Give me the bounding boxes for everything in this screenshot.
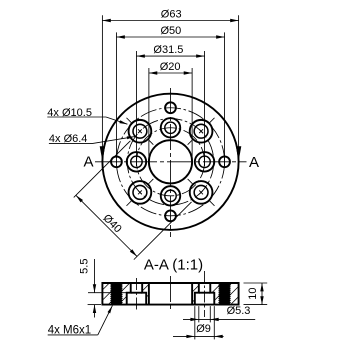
- hole Ø10.5/Ø6.4 top-left (on Ø40): [126, 118, 153, 145]
- svg-text:Ø20: Ø20: [160, 61, 181, 73]
- svg-text:10: 10: [247, 287, 259, 299]
- section centerline left counterbore: [135, 278, 137, 312]
- svg-text:A-A (1:1): A-A (1:1): [144, 256, 203, 273]
- counterbore hole Ø9/Ø5.3 left (on Ø31.5): [127, 152, 146, 171]
- vertical centerline: [170, 88, 172, 237]
- svg-text:5.5: 5.5: [79, 259, 91, 274]
- label A right: [249, 154, 259, 171]
- extension line Ø31.5 right: [204, 51, 206, 166]
- extension line Ø63 left: [101, 15, 103, 149]
- counterbore hole Ø9/Ø5.3 right (on Ø31.5): [195, 152, 214, 171]
- dimension Ø50: [116, 25, 224, 39]
- section main centerline: [170, 276, 172, 312]
- extension line Ø20 left: [148, 68, 150, 166]
- counterbore far-wall edge right: [199, 292, 210, 294]
- bolt circle Ø50: [116, 108, 224, 216]
- section arrow left: [100, 146, 105, 161]
- hole Ø10.5/Ø6.4 bottom-right (on Ø40): [188, 179, 215, 206]
- label A left: [83, 154, 93, 171]
- hole Ø10.5/Ø6.4 bottom-left (on Ø40): [126, 179, 153, 206]
- svg-text:Ø31.5: Ø31.5: [153, 44, 183, 56]
- extension line Ø50 left: [115, 32, 117, 166]
- threaded hole M6 right (on Ø50): [219, 156, 230, 167]
- label 4x Ø6.4 with leader: [49, 133, 135, 145]
- extension line Ø63 right: [238, 15, 240, 149]
- svg-text:A: A: [249, 154, 259, 171]
- dimension 5.5: [79, 259, 128, 318]
- dimension Ø63: [102, 9, 238, 23]
- extension line Ø31.5 left: [135, 51, 137, 166]
- bolt circle Ø31.5: [136, 128, 204, 196]
- svg-text:Ø50: Ø50: [161, 25, 182, 37]
- threaded hole M6x1 left (section): [110, 283, 123, 305]
- horizontal centerline / cutting line A-A: [95, 161, 247, 163]
- threaded hole M6 top (on Ø50): [165, 102, 176, 113]
- svg-text:Ø9: Ø9: [196, 323, 211, 335]
- dimension Ø5.3: [183, 305, 255, 323]
- svg-text:Ø5.3: Ø5.3: [227, 305, 251, 317]
- extension line Ø50 right: [224, 32, 226, 166]
- svg-text:Ø63: Ø63: [161, 9, 182, 21]
- dimension Ø20: [149, 61, 192, 75]
- extension line Ø20 right: [191, 68, 193, 166]
- label 4x Ø10.5 with leader: [47, 107, 127, 124]
- section material with hatching: [88, 283, 273, 305]
- hole Ø10.5/Ø6.4 top-right (on Ø40): [188, 118, 215, 145]
- threaded hole M6x1 right (section): [218, 283, 231, 305]
- counterbore hole Ø9/Ø5.3 top (on Ø31.5): [161, 118, 180, 137]
- section title A-A (1:1): [144, 256, 203, 273]
- svg-text:4x Ø6.4: 4x Ø6.4: [49, 133, 88, 145]
- threaded hole M6 bottom (on Ø50): [165, 210, 176, 221]
- dimension Ø9: [173, 306, 224, 339]
- dimension Ø31.5: [136, 44, 204, 58]
- dimension Ø40 (diagonal): [74, 141, 192, 260]
- section arrow right: [236, 146, 241, 161]
- center hole Ø20: [149, 140, 192, 183]
- label 4x M6x1 with leader: [48, 306, 113, 337]
- counterbore far-wall edge left: [131, 292, 142, 294]
- svg-text:A: A: [83, 154, 93, 171]
- counterbore hole Ø9/Ø5.3 bottom (on Ø31.5): [161, 186, 180, 205]
- threaded hole M6 left (on Ø50): [111, 156, 122, 167]
- dimension 10: [244, 283, 268, 305]
- flange outer circle Ø63: [102, 94, 238, 230]
- bolt circle Ø40: [127, 119, 213, 205]
- section centerline right counterbore: [204, 271, 206, 317]
